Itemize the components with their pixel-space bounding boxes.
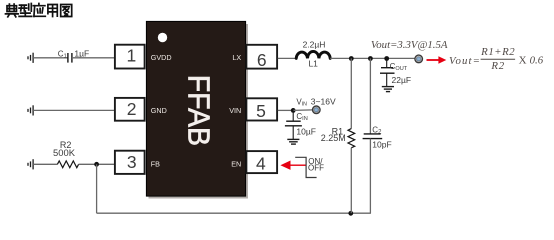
svg-text:GND: GND: [151, 106, 167, 115]
wire pin6 to L1: [278, 57, 296, 59]
svg-text:2: 2: [127, 99, 137, 119]
ON/OFF bracket: [295, 157, 316, 177]
pin 3: [115, 151, 145, 174]
capacitor C2: [363, 58, 383, 213]
fraction bar: [481, 58, 515, 60]
svg-text:COUT: COUT: [390, 62, 408, 72]
wire pin5 to VIN node: [278, 109, 293, 111]
svg-text:3: 3: [127, 152, 137, 172]
svg-text:C1: C1: [58, 49, 67, 59]
ground (COUT): [382, 87, 394, 92]
label VIN 3~16V: [296, 96, 336, 107]
arrow EN (red): [280, 161, 306, 170]
wire L1 to Vout terminal: [330, 57, 415, 59]
svg-text:FB: FB: [151, 159, 160, 168]
ground (C1 input): [28, 53, 33, 63]
capacitor CIN: [285, 110, 302, 139]
svg-text:10pF: 10pF: [372, 140, 391, 150]
label CIN 10uF: [296, 112, 316, 137]
pin 5: [246, 98, 277, 121]
svg-text:1: 1: [127, 46, 137, 66]
resistor R2: [57, 161, 78, 168]
IC U1 FFAB: [146, 21, 248, 198]
svg-text:EN: EN: [231, 159, 241, 168]
wire FB junction down: [96, 164, 98, 213]
svg-text:LX: LX: [232, 53, 241, 62]
svg-text:VIN: VIN: [296, 97, 307, 107]
svg-text:22µF: 22µF: [392, 75, 412, 85]
wire ground to R2: [33, 163, 57, 165]
terminal VIN: [313, 106, 321, 114]
capacitor COUT: [380, 58, 395, 86]
label C1 1uF: [58, 49, 89, 60]
pin 2: [115, 98, 145, 121]
pin 1: [115, 45, 145, 69]
svg-text:OFF: OFF: [308, 164, 324, 173]
svg-text:L1: L1: [308, 59, 318, 69]
wire ground to C1: [33, 57, 68, 59]
formula Vout=(R1+R2)/R2 x 0.6: [449, 46, 544, 72]
terminal Vout: [415, 55, 423, 63]
label ON/OFF: [308, 157, 324, 172]
svg-text:C2: C2: [372, 125, 382, 135]
svg-text:R1+R2: R1+R2: [480, 46, 515, 58]
ground (CIN): [287, 139, 299, 144]
svg-text:5: 5: [256, 101, 266, 121]
ground (R2 input): [28, 159, 33, 169]
label L1 2.2uH: [303, 39, 326, 68]
wire C1 to pin1: [72, 57, 115, 59]
wire VIN node to terminal: [293, 109, 313, 112]
svg-text:CIN: CIN: [296, 112, 307, 122]
svg-text:FFAB: FFAB: [181, 75, 215, 146]
svg-text:3~16V: 3~16V: [311, 96, 336, 106]
node COUT top: [384, 56, 389, 61]
svg-text:GVDD: GVDD: [151, 53, 172, 62]
node C2 top: [368, 56, 373, 61]
wire R2 to pin3: [79, 163, 115, 165]
svg-text:VIN: VIN: [229, 106, 241, 115]
pin 4: [246, 151, 277, 173]
node VIN junction: [291, 108, 296, 113]
capacitor C1: [68, 53, 72, 63]
svg-text:2.25M: 2.25M: [321, 133, 346, 143]
inductor L1: [296, 51, 330, 58]
svg-text:2.2µH: 2.2µH: [303, 39, 326, 49]
svg-text:500K: 500K: [53, 147, 76, 158]
node R1 top: [349, 56, 354, 61]
svg-text:4: 4: [256, 153, 266, 173]
label COUT 22uF: [390, 62, 411, 85]
wire bottom rail: [97, 212, 371, 214]
title 典型应用图: [6, 4, 72, 17]
svg-text:Vout=3.3V@1.5A: Vout=3.3V@1.5A: [371, 39, 448, 51]
ground (GND input): [28, 105, 33, 115]
svg-text:1µF: 1µF: [74, 49, 89, 59]
label R1 2.25M: [321, 126, 346, 142]
label R2 500K: [53, 140, 76, 158]
node R1 bottom junction: [348, 211, 353, 216]
svg-text:10µF: 10µF: [296, 126, 316, 136]
arrow Vout (red): [427, 56, 447, 63]
label C2 10pF: [372, 125, 391, 149]
resistor R1: [348, 58, 355, 213]
svg-text:6: 6: [257, 50, 267, 70]
wire ground to pin2: [33, 109, 115, 111]
svg-text:0.6: 0.6: [530, 55, 544, 67]
svg-text:R2: R2: [490, 60, 505, 72]
node FB junction: [94, 162, 99, 167]
pin 6: [246, 45, 277, 70]
svg-text:X: X: [519, 54, 527, 66]
svg-text:Vout=: Vout=: [449, 55, 481, 67]
